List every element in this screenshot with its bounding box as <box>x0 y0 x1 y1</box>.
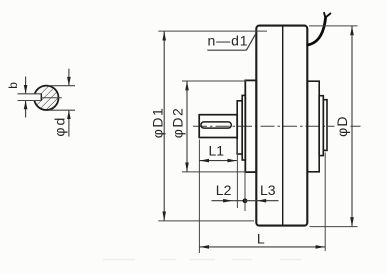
n-d1 leader line <box>207 34 255 50</box>
svg-text:φD1: φD1 <box>149 107 165 138</box>
svg-text:L3: L3 <box>260 182 276 198</box>
shaft cross-section circle with hatching <box>34 86 58 110</box>
svg-text:φD2: φD2 <box>170 107 186 138</box>
svg-text:φd: φd <box>52 116 68 137</box>
body (coil housing) <box>256 26 307 226</box>
dimension phi-D extension lines <box>309 26 358 227</box>
rotor plate 1 (right) <box>307 81 319 172</box>
reference dot junction <box>243 198 248 203</box>
hub plate B <box>242 95 245 160</box>
keyway notch (white cut-out in circle) <box>31 94 41 101</box>
svg-text:b: b <box>6 82 20 89</box>
lead wire <box>308 18 326 45</box>
dimension phi-D1 line with arrows <box>162 31 166 221</box>
L right extension line <box>324 153 326 252</box>
dimension L line with arrows <box>199 245 325 249</box>
dimension L3 line with outside arrow <box>245 199 279 203</box>
dimension phi-D2 line with arrows <box>185 81 189 172</box>
keyway slot in shaft <box>201 122 231 128</box>
shaft <box>199 115 237 138</box>
flange plate <box>245 80 256 172</box>
body inner line <box>282 27 284 225</box>
svg-text:φD: φD <box>334 115 350 137</box>
L/L1 shared left extension line <box>198 140 200 254</box>
dimension b arrows <box>24 77 28 118</box>
circle centerline <box>32 97 62 99</box>
L1/L2 shared right extension line <box>236 140 238 209</box>
wire fork prongs <box>324 13 330 18</box>
rotor plate 2 (right) <box>319 96 323 156</box>
white backing for phi-D label <box>335 116 349 139</box>
dimension phi-D2 extension lines <box>182 81 247 172</box>
hub plate A <box>237 101 242 154</box>
keyway width extension lines (b) <box>18 94 42 101</box>
rotor plate 3 (right, end cap) <box>323 100 327 151</box>
dimension L1 line with arrows <box>199 159 237 163</box>
svg-text:n—d1: n—d1 <box>208 32 249 48</box>
dimension L2 line with outside arrow <box>212 199 246 203</box>
dimension phi-D line with arrows <box>350 26 354 227</box>
svg-text:L2: L2 <box>216 182 232 198</box>
centerline of main view <box>193 125 361 127</box>
faint scan remnants at bottom <box>103 259 302 261</box>
dimension phi-D1 extension lines <box>158 31 267 221</box>
svg-text:L1: L1 <box>209 143 225 159</box>
vertical line through dot <box>244 173 246 212</box>
dimension phi-d arrows <box>67 69 71 137</box>
svg-text:L: L <box>257 231 265 247</box>
dimension phi-d extension lines <box>49 86 76 111</box>
